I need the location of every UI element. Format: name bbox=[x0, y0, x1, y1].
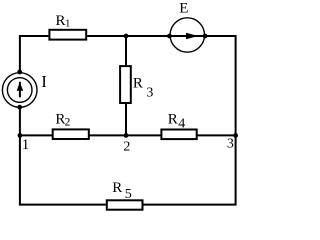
junction dot: top of R3 branch bbox=[124, 34, 129, 39]
resistor R5 bbox=[107, 180, 143, 210]
svg-text:4: 4 bbox=[178, 117, 185, 132]
svg-text:2: 2 bbox=[123, 139, 130, 154]
resistor R1 bbox=[49, 13, 86, 40]
wire: R3 bottom lead bbox=[125, 103, 127, 135]
wire: right lower + bottom-right segment (node 3 down to corner, left to R5) bbox=[144, 135, 236, 204]
svg-text:I: I bbox=[41, 72, 47, 91]
node 1 bbox=[18, 133, 30, 153]
voltage source E (circle with right arrow) bbox=[170, 0, 206, 52]
wire: left segment between node 1 and I bottom terminal bbox=[19, 107, 21, 135]
svg-text:5: 5 bbox=[125, 187, 132, 202]
junction dot: I bottom terminal bbox=[17, 105, 22, 110]
svg-text:1: 1 bbox=[22, 137, 30, 153]
wire: bottom-left segment (R5 left to corner, up to node 1) bbox=[20, 135, 106, 204]
wire: top middle segment (R1 right to E left terminal) bbox=[87, 35, 169, 37]
junction dot: I top terminal bbox=[17, 70, 22, 75]
wire: middle segment R4 to node 3 bbox=[197, 134, 235, 136]
resistor R3 bbox=[120, 66, 153, 103]
wire: top-left corner segment (R1 left to top-left corner, down to I top) bbox=[20, 36, 49, 72]
svg-text:R: R bbox=[56, 13, 66, 29]
svg-text:1: 1 bbox=[65, 18, 71, 30]
svg-text:R: R bbox=[168, 111, 178, 127]
node 2 bbox=[123, 133, 130, 154]
svg-text:3: 3 bbox=[146, 86, 153, 101]
resistor R2 bbox=[53, 111, 89, 139]
svg-text:R: R bbox=[112, 180, 122, 196]
svg-text:3: 3 bbox=[227, 136, 234, 151]
wire: middle segment node 2 to R4 bbox=[126, 134, 161, 136]
resistor R4 bbox=[161, 111, 196, 139]
svg-text:2: 2 bbox=[65, 116, 71, 128]
svg-text:R: R bbox=[133, 76, 143, 92]
wire: middle segment node 1 to R2 bbox=[20, 134, 52, 136]
wire: top-right corner segment (E right terminal to corner, down to node 3) bbox=[205, 36, 236, 135]
junction dot: E right terminal bbox=[203, 34, 208, 39]
wire: middle segment R2 to node 2 bbox=[90, 134, 127, 136]
wire: R3 top lead bbox=[125, 36, 127, 66]
junction dot: E left terminal bbox=[167, 34, 172, 39]
current source I (double circle with up arrow) bbox=[2, 72, 47, 107]
node 3 bbox=[227, 133, 238, 151]
svg-text:E: E bbox=[179, 0, 188, 16]
